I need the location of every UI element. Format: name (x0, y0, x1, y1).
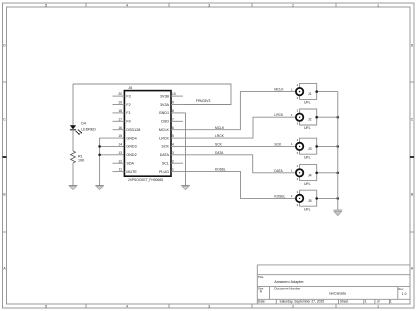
label R1 10K (78, 154, 85, 162)
ground (pin 8 GND1) (181, 186, 190, 190)
wire GND rail (pins 15,14,13) (100, 138, 125, 185)
svg-text:9: 9 (172, 101, 174, 105)
svg-text:3: 3 (208, 4, 210, 8)
svg-text:DSD: DSD (161, 120, 169, 124)
svg-text:SCK: SCK (161, 145, 169, 149)
svg-text:SCL: SCL (162, 162, 169, 166)
svg-text:F1: F1 (126, 111, 130, 115)
svg-text:MCLK: MCLK (159, 128, 170, 132)
svg-text:14: 14 (118, 143, 122, 147)
wire LED anode (72, 84, 74, 126)
net label SCK (at J3) (274, 142, 282, 146)
wire J1 shield to rail (317, 91, 338, 93)
svg-text:4: 4 (172, 143, 174, 147)
svg-text:10K: 10K (78, 159, 85, 163)
svg-text:J1: J1 (308, 92, 312, 96)
wire KOSEL net (183, 172, 295, 199)
wire LED cathode to R1 (72, 130, 74, 151)
svg-text:D4: D4 (81, 122, 86, 126)
connector J1 (291, 83, 317, 105)
ground (below GND rail) (95, 186, 104, 190)
svg-text:MCLK: MCLK (215, 126, 225, 130)
connector J3 (291, 138, 317, 160)
svg-text:J3: J3 (308, 147, 312, 151)
svg-text:SDA: SDA (126, 162, 134, 166)
svg-text:FPAO3V3: FPAO3V3 (196, 99, 211, 103)
svg-text:MUTE: MUTE (126, 170, 137, 174)
svg-text:15: 15 (118, 134, 122, 138)
svg-text:LRCK: LRCK (159, 136, 169, 140)
svg-text:F2: F2 (126, 103, 130, 107)
svg-text:1: 1 (172, 168, 174, 172)
svg-text:4: 4 (126, 4, 128, 8)
junction (J5 shield) (315, 197, 318, 200)
net label DATA (at IC) (215, 151, 224, 155)
svg-text:19: 19 (118, 101, 122, 105)
svg-text:11: 11 (119, 168, 123, 172)
wire SCK net (183, 145, 295, 147)
svg-text:J6: J6 (128, 86, 132, 90)
svg-text:J4: J4 (308, 173, 312, 177)
junction (J3 shield) (315, 145, 318, 148)
svg-text:1: 1 (365, 300, 367, 304)
net label LRCK (at J2) (274, 113, 284, 117)
svg-text:18: 18 (118, 109, 122, 113)
ground (below R1) (69, 186, 78, 190)
wire DATA net (183, 155, 295, 173)
net label KOSEL (at J5) (274, 194, 285, 198)
svg-text:Sheet: Sheet (340, 299, 348, 303)
net label DATA (at J4) (274, 169, 283, 173)
svg-text:KOSEL: KOSEL (274, 194, 285, 198)
wire J3 shield to rail (317, 145, 338, 147)
svg-text:20: 20 (118, 92, 122, 96)
junction (GND rail pin 14) (98, 145, 101, 148)
svg-text:MCLK: MCLK (274, 88, 284, 92)
svg-text:5: 5 (172, 134, 174, 138)
svg-text:3: 3 (208, 305, 210, 309)
junction (J1 shield) (315, 90, 318, 93)
svg-text:13: 13 (118, 151, 122, 155)
svg-text:DSD128: DSD128 (126, 128, 140, 132)
junction (GND rail pin 13) (98, 154, 101, 157)
wire FPAO3V3 net (pin 9 to LED anode) (73, 84, 231, 105)
net label KOSEL (at IC) (215, 168, 226, 172)
svg-text:16: 16 (118, 126, 122, 130)
wire ground rail (right of connectors) (337, 92, 339, 210)
svg-text:DATA: DATA (215, 151, 224, 155)
svg-text:DATA: DATA (274, 169, 283, 173)
svg-text:5: 5 (45, 305, 47, 309)
svg-text:J2: J2 (308, 118, 312, 122)
svg-text:8: 8 (172, 109, 174, 113)
wire GND1 pin 8 to ground (183, 113, 186, 185)
svg-text:Title: Title (258, 275, 264, 279)
connector J5 (291, 190, 317, 212)
junction (rail J3) (337, 145, 340, 148)
label D4 LEDRED (81, 122, 96, 132)
svg-text:20PSOCKET_FH00665: 20PSOCKET_FH00665 (128, 178, 163, 182)
net label FPAO3V3 (196, 99, 211, 103)
svg-text:2: 2 (172, 159, 174, 163)
svg-text:of: of (377, 300, 380, 304)
junction (rail J4) (337, 172, 340, 175)
wire R1 to ground (72, 163, 74, 185)
IC left pin names (126, 94, 140, 173)
net label SCK (at IC) (215, 143, 223, 147)
svg-text:Amanero Adapter: Amanero Adapter (274, 280, 304, 284)
svg-text:GND4: GND4 (126, 136, 136, 140)
svg-text:PLUG: PLUG (159, 170, 169, 174)
svg-text:4: 4 (126, 305, 128, 309)
svg-text:1: 1 (390, 300, 392, 304)
svg-text:7: 7 (172, 117, 174, 121)
wire MCLK net (183, 92, 295, 130)
junction (J2 shield) (315, 116, 318, 119)
svg-text:3V3A: 3V3A (160, 103, 170, 107)
svg-text:LRCK: LRCK (274, 113, 284, 117)
svg-text:1.0: 1.0 (402, 292, 407, 296)
svg-text:LEDRED: LEDRED (81, 128, 96, 132)
svg-text:12: 12 (118, 159, 122, 163)
svg-text:GND2: GND2 (126, 153, 136, 157)
svg-text:3: 3 (172, 151, 174, 155)
svg-text:KOSEL: KOSEL (215, 168, 226, 172)
svg-text:GND1: GND1 (159, 111, 169, 115)
svg-text:GND3: GND3 (126, 145, 136, 149)
LED D4 (70, 125, 82, 134)
svg-text:DATA: DATA (160, 153, 170, 157)
junction (rail J2) (337, 116, 340, 119)
svg-text:6: 6 (172, 126, 174, 130)
svg-text:Document Number: Document Number (274, 286, 300, 290)
svg-text:F3: F3 (126, 94, 130, 98)
svg-text:Saturday, September 27, 2025: Saturday, September 27, 2025 (280, 300, 325, 304)
IC left pin stubs (20,19,18,17,16,12,11) (113, 96, 125, 172)
junction (J4 shield) (315, 172, 318, 175)
wire J2 shield to rail (317, 116, 338, 118)
svg-text:5: 5 (45, 4, 47, 8)
svg-text:Rev: Rev (398, 287, 404, 291)
svg-text:Date:: Date: (258, 300, 266, 304)
net label MCLK (at J1) (274, 88, 284, 92)
svg-text:1: 1 (377, 305, 379, 309)
svg-text:10: 10 (172, 92, 176, 96)
svg-text:UFL: UFL (304, 155, 311, 159)
svg-text:SCK: SCK (215, 143, 223, 147)
svg-text:F0: F0 (126, 120, 130, 124)
svg-text:2: 2 (292, 305, 294, 309)
IC left pin numbers (118, 92, 122, 172)
connector J4 (291, 164, 317, 186)
svg-text:17: 17 (118, 117, 122, 121)
svg-text:IanCanada: IanCanada (329, 292, 346, 296)
IC right pin names (159, 94, 170, 173)
svg-text:UFL: UFL (304, 182, 311, 186)
svg-text:1: 1 (377, 4, 379, 8)
svg-text:UFL: UFL (304, 207, 311, 211)
svg-text:UFL: UFL (304, 126, 311, 130)
svg-text:2: 2 (292, 4, 294, 8)
svg-text:SCK: SCK (274, 142, 282, 146)
IC right pin numbers (172, 92, 176, 172)
wire J5 shield to rail (317, 197, 338, 199)
resistor R1 (71, 151, 76, 163)
junction (rail J5) (337, 197, 340, 200)
svg-text:UFL: UFL (304, 101, 311, 105)
ground (connector rail) (334, 210, 343, 216)
IC right pin stubs (10,9,8,7,6,5,4,3,2,1) (171, 96, 183, 172)
svg-text:J5: J5 (308, 199, 312, 203)
net label MCLK (at IC) (215, 126, 225, 130)
net label LRCK (at IC) (215, 134, 225, 138)
IC socket J6 (124, 86, 171, 182)
wire J4 shield to rail (317, 172, 338, 174)
wire LRCK net (183, 117, 295, 138)
svg-text:3V3B: 3V3B (160, 94, 170, 98)
connector J2 (291, 109, 317, 131)
svg-text:LRCK: LRCK (215, 134, 225, 138)
